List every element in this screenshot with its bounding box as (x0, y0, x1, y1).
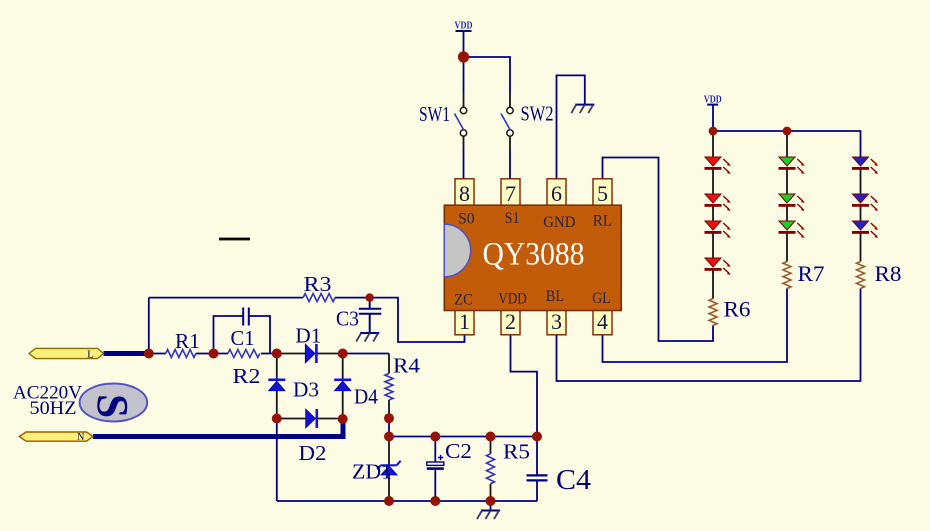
svg-text:S1: S1 (505, 210, 520, 227)
svg-text:D4: D4 (354, 385, 378, 409)
junction node R4 bottom (384, 413, 394, 423)
junction node R4-ZD1 rail (384, 432, 394, 442)
svg-text:VDD: VDD (455, 21, 473, 32)
wire bridge right vertical with D4 (342, 354, 344, 420)
wire VDD row above C2 R5 C4 (389, 436, 537, 438)
wire L rail segments through R1 R2 (149, 353, 277, 355)
wire VDD symbol to SW junction (463, 31, 465, 57)
IC pin name GND (543, 214, 575, 231)
wire pin4 GL to green LED column (603, 289, 788, 363)
svg-text:R5: R5 (503, 440, 530, 464)
diode D3 (268, 378, 319, 402)
junction node bridge bottom-right (338, 414, 348, 424)
dash annotation mark (219, 238, 250, 241)
wire node R4 to ZD1 (388, 418, 390, 436)
LED red 1 (705, 157, 731, 174)
svg-text:R6: R6 (724, 297, 751, 322)
wire thick N rail from terminal N to bridge corner (93, 421, 343, 437)
terminal N (19, 432, 93, 443)
svg-text:BL: BL (546, 288, 564, 305)
svg-text:R2: R2 (233, 364, 261, 388)
wire pin6 GND to ground symbol (557, 75, 585, 178)
wire vertical from R3 row to L rail (148, 298, 150, 354)
wire ground rail bottom (277, 500, 537, 502)
svg-text:GL: GL (592, 290, 610, 307)
IC pin name RL (593, 213, 612, 230)
IC pin name GL (592, 290, 610, 307)
capacitor C1 (231, 308, 255, 351)
wire green LED column (786, 131, 788, 262)
LED green 3 (779, 221, 805, 238)
wire R5 stubs (490, 437, 492, 502)
svg-text:S0: S0 (458, 211, 475, 228)
pin 5 (593, 179, 612, 207)
diode D1 (295, 324, 321, 364)
IC pin name S1 (505, 210, 520, 227)
wire C4 stubs (536, 437, 538, 502)
switch SW2 (501, 102, 554, 137)
LED blue 3 (852, 221, 878, 238)
svg-text:C2: C2 (445, 439, 472, 463)
AC source AC220V 50HZ (13, 382, 147, 421)
LED red 3 (705, 221, 731, 238)
junction node R3-C3 (366, 293, 374, 301)
LED blue 2 (852, 194, 878, 211)
capacitor C2 electrolytic (427, 439, 472, 470)
IC pin name ZC (454, 292, 472, 309)
wire blue LED column (860, 169, 862, 262)
wire D2 branch bottom of bridge (277, 418, 343, 420)
wire bridge bottom-left to ground rail (276, 419, 278, 502)
junction node LED VDD red (709, 127, 718, 136)
junction node VDD switches (458, 51, 469, 62)
LED green 1 (779, 157, 805, 174)
junction node L-R1 (144, 349, 154, 359)
diode D4 (334, 379, 378, 409)
svg-text:SW2: SW2 (521, 102, 554, 126)
svg-text:7: 7 (505, 181, 516, 206)
svg-text:N: N (77, 432, 84, 443)
junction node C2 top (430, 432, 440, 442)
svg-text:L: L (87, 349, 94, 361)
ground below C3 (356, 333, 379, 342)
wire bridge left vertical with D3 (276, 354, 278, 419)
svg-text:QY3088: QY3088 (483, 237, 585, 273)
svg-text:VDD: VDD (498, 291, 527, 308)
junction node bridge top-right (338, 349, 348, 359)
junction node R1-R2-C1 (209, 349, 219, 359)
junction node ZD1 bottom (384, 496, 394, 506)
wire pin3 BL to blue LED column (557, 289, 861, 382)
LED blue 1 (852, 157, 878, 174)
LED red 4 (705, 258, 731, 275)
junction node bridge top-left (272, 349, 282, 359)
pin 3 (547, 307, 566, 334)
wire black stubs into switch contacts (464, 93, 511, 150)
svg-text:SW1: SW1 (419, 102, 450, 126)
LED red 2 (705, 194, 731, 211)
svg-text:ZC: ZC (454, 292, 472, 309)
svg-text:D1: D1 (295, 324, 321, 348)
junction node ground rail (486, 496, 496, 506)
resistor R4 (385, 354, 421, 400)
IC pin name VDD (498, 291, 527, 308)
wire SW junction to SW1 and SW2 tops (464, 57, 511, 93)
svg-text:R7: R7 (798, 261, 825, 286)
zener diode ZD1 (352, 460, 401, 484)
wire switches down to pins 8 and 7 (464, 150, 511, 179)
svg-text:C1: C1 (231, 326, 255, 350)
junction node LED VDD green (783, 127, 792, 136)
svg-text:C3: C3 (336, 307, 359, 331)
wire C2 stubs (434, 437, 436, 502)
pin 6 (547, 179, 566, 207)
resistor R5 (487, 440, 531, 484)
svg-text:VDD: VDD (704, 95, 722, 106)
wire R4 branch vertical (388, 354, 390, 419)
wire D1 branch black segments (277, 353, 343, 355)
junction node C4 top (532, 432, 542, 442)
svg-text:R4: R4 (393, 354, 421, 378)
IC U1 QY3088 body (444, 205, 621, 310)
resistor R8 (857, 261, 902, 288)
pin 7 (501, 179, 520, 207)
svg-text:GND: GND (543, 214, 575, 231)
svg-text:3: 3 (551, 309, 562, 334)
svg-text:D2: D2 (299, 441, 327, 465)
pin 4 (593, 307, 612, 334)
svg-text:D3: D3 (293, 378, 319, 402)
svg-text:8: 8 (459, 181, 470, 206)
pin 8 (455, 179, 474, 207)
svg-text:RL: RL (593, 213, 612, 230)
svg-text:R8: R8 (875, 261, 902, 286)
svg-text:R1: R1 (175, 329, 200, 353)
power VDD symbol above switches (455, 21, 473, 32)
ground below bottom rail (490, 501, 492, 511)
terminal L (29, 348, 104, 360)
diode D2 (299, 409, 327, 465)
junction node R5 top (486, 432, 496, 442)
wire DC plus elbow from bridge to R4 (343, 353, 389, 355)
capacitor C3 (336, 298, 381, 333)
wire pin5 RL to red LED column (603, 158, 714, 342)
pin 2 (501, 307, 520, 334)
svg-text:4: 4 (597, 309, 608, 334)
wire pin2 VDD down to C-R rail (511, 335, 538, 437)
svg-text:5: 5 (597, 181, 608, 206)
wire R3 row to ZC pin 1 (149, 298, 465, 342)
pin 1 (455, 307, 474, 334)
wire red LED column (712, 131, 714, 299)
ground near pin 6 (571, 105, 594, 114)
resistor R1 (166, 329, 200, 358)
power VDD symbol above LED columns (704, 95, 722, 106)
junction node C2 bottom (430, 496, 440, 506)
svg-text:S: S (88, 394, 136, 418)
capacitor C4 (527, 464, 592, 496)
svg-text:C4: C4 (556, 464, 592, 496)
svg-text:2: 2 (505, 309, 516, 334)
svg-text:R3: R3 (304, 272, 332, 296)
wire ZD1 vertical segments (388, 437, 390, 502)
IC pin name BL (546, 288, 564, 305)
wire thick L rail from terminal L to node at R1 (104, 351, 149, 356)
wire LED VDD top rail (713, 105, 861, 157)
IC pin name S0 (458, 211, 475, 228)
svg-text:50HZ: 50HZ (30, 398, 77, 419)
svg-text:1: 1 (459, 309, 470, 334)
switch SW1 (419, 102, 467, 136)
resistor R6 (709, 297, 751, 326)
svg-text:6: 6 (551, 181, 562, 206)
resistor R7 (783, 261, 825, 288)
wire C1 parallel loop over R2 (214, 316, 271, 354)
junction node bridge bottom-left (272, 414, 282, 424)
svg-text:ZD1: ZD1 (352, 460, 392, 484)
resistor R2 (228, 350, 261, 389)
LED green 2 (779, 194, 805, 211)
resistor R3 (303, 272, 335, 302)
